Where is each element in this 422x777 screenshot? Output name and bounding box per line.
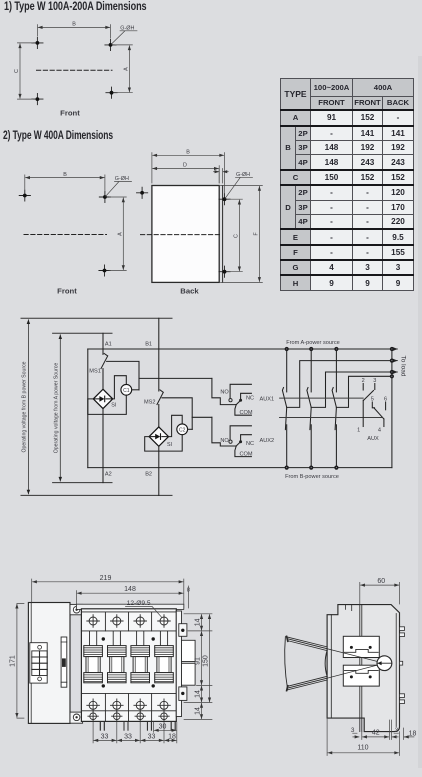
AUX1 blade bbox=[236, 401, 240, 405]
dimension arrow: operating voltage from B power source bbox=[27, 320, 29, 494]
wire A1 vertical bbox=[102, 333, 104, 354]
dimension 171 bbox=[16, 604, 18, 717]
right side band bbox=[176, 611, 181, 717]
dimension B bbox=[38, 26, 110, 28]
wire bridge1 bottom to A2 bbox=[102, 409, 104, 483]
operating voltage A reference line top bbox=[53, 332, 112, 334]
dimension 14 bottom bbox=[201, 703, 203, 718]
svg-text:B2: B2 bbox=[145, 471, 152, 477]
AUX1 feed wire bbox=[212, 378, 236, 404]
svg-text:171: 171 bbox=[10, 655, 17, 667]
junction dots on load bus bbox=[390, 359, 394, 363]
front view: mounting hole bottom-right bbox=[99, 265, 110, 276]
AUX1 COM branch bbox=[235, 405, 252, 416]
front view: mounting hole top-left bbox=[19, 190, 30, 201]
dimension 60 bbox=[360, 582, 400, 604]
AUX blade 3 to common bbox=[364, 391, 374, 401]
back view: dimension B extension lines bbox=[152, 153, 225, 194]
wire C1 right to junction bbox=[132, 389, 139, 391]
dimension 3 left bbox=[353, 736, 359, 738]
dimension C extension lines bbox=[17, 43, 33, 99]
main pole 3: load wire bbox=[336, 376, 392, 407]
wire junction to AUX1 feed bbox=[139, 377, 212, 379]
junction dots on B rail bbox=[285, 466, 289, 470]
svg-text:3: 3 bbox=[395, 727, 399, 734]
handle lower position bbox=[287, 676, 327, 690]
svg-text:8: 8 bbox=[187, 588, 190, 594]
projection lines to shaft bbox=[327, 649, 384, 679]
main body bbox=[81, 609, 176, 722]
section title 1 bbox=[4, 1, 147, 13]
pole 3 bbox=[131, 615, 150, 722]
svg-text:60: 60 bbox=[377, 578, 385, 585]
switch MS1 bbox=[101, 354, 108, 369]
right bottom tab bbox=[179, 687, 187, 701]
svg-text:COM: COM bbox=[240, 452, 253, 458]
svg-text:AUX1: AUX1 bbox=[260, 397, 275, 403]
right extension ticks bbox=[184, 614, 212, 720]
front view: dimension B extension lines bbox=[25, 175, 105, 191]
mounting feet stubs bbox=[100, 721, 104, 730]
main pole 3: lower wire bbox=[335, 425, 337, 468]
svg-text:B: B bbox=[186, 150, 190, 156]
svg-text:C1: C1 bbox=[123, 388, 130, 394]
dimension 14 top bbox=[201, 615, 203, 631]
linkage line upper bbox=[280, 397, 364, 399]
back view: dimension E (plate thickness) bbox=[219, 169, 222, 184]
pole 2 bbox=[108, 615, 127, 722]
svg-text:B: B bbox=[72, 22, 76, 28]
hole callout G-ØH leader bbox=[111, 31, 137, 45]
svg-text:A: A bbox=[124, 67, 130, 71]
svg-text:33: 33 bbox=[124, 733, 132, 740]
back view: dimension F extension lines bbox=[221, 186, 263, 283]
wire MS2 to bridge2 bbox=[158, 405, 160, 427]
rectifier bridge SI (1) bbox=[93, 389, 112, 408]
svg-text:33: 33 bbox=[148, 733, 156, 740]
operating voltage B reference line bottom bbox=[21, 494, 172, 496]
dimension 42 bbox=[363, 736, 389, 738]
main pole 2: upper contact wire bbox=[310, 349, 312, 392]
left plate slot bbox=[61, 637, 67, 687]
main pole 1: load wire bbox=[287, 361, 392, 408]
svg-text:F: F bbox=[254, 232, 260, 236]
svg-text:To load: To load bbox=[400, 356, 407, 377]
svg-text:14: 14 bbox=[195, 618, 202, 626]
svg-text:C: C bbox=[14, 69, 20, 73]
svg-text:AUX2: AUX2 bbox=[260, 438, 275, 444]
dimension A extension lines bbox=[115, 45, 132, 93]
AUX terminal 4 wire bbox=[383, 419, 385, 427]
handle upper position bbox=[287, 637, 327, 651]
load bus vertical bbox=[391, 349, 393, 468]
svg-text:18: 18 bbox=[168, 733, 176, 740]
svg-text:Front: Front bbox=[57, 287, 77, 296]
bottom terminal strip bbox=[81, 694, 176, 711]
AUX1 NO branch bbox=[230, 384, 251, 398]
coil C1 bbox=[121, 384, 132, 395]
svg-text:110: 110 bbox=[357, 745, 368, 752]
svg-text:Back: Back bbox=[180, 287, 199, 296]
coil C2 bbox=[177, 424, 188, 435]
left tie wire (control box left side) bbox=[87, 349, 89, 468]
front face inner line bbox=[330, 615, 332, 718]
main pole 1: upper blade bbox=[282, 388, 286, 430]
wire junction to AUX2 feed bbox=[192, 416, 212, 418]
left interlock plate bbox=[28, 603, 70, 724]
svg-text:33: 33 bbox=[101, 733, 109, 740]
dimension B extension lines bbox=[37, 25, 110, 38]
svg-text:B1: B1 bbox=[145, 342, 152, 348]
front view: mounting hole top-right bbox=[99, 191, 110, 202]
to-load arrow 3 bbox=[392, 371, 397, 373]
top joint ticks bbox=[346, 605, 352, 611]
top terminal strip bbox=[81, 612, 176, 631]
main pole 1: lower wire bbox=[286, 425, 288, 468]
svg-text:MS1: MS1 bbox=[89, 368, 101, 374]
svg-text:A1: A1 bbox=[105, 342, 112, 348]
bottom extension lines bbox=[362, 720, 404, 740]
svg-text:A2: A2 bbox=[105, 471, 112, 477]
section title 2 bbox=[3, 130, 113, 142]
AUX2 blade bbox=[236, 442, 240, 446]
wire MS1 fixed contact to junction bbox=[107, 361, 139, 389]
svg-text:AUX: AUX bbox=[367, 436, 379, 442]
back view: mounting hole right-upper bbox=[219, 194, 230, 205]
back view: body rectangle bbox=[152, 186, 219, 283]
svg-text:C: C bbox=[234, 234, 240, 238]
mounting hole top-left bbox=[32, 37, 43, 48]
to-load arrow 1 bbox=[392, 348, 397, 350]
back view: center dashed line bbox=[141, 234, 222, 236]
A-power rail bbox=[88, 348, 392, 350]
dimension 110 bbox=[327, 718, 399, 755]
AUX2 NC branch bbox=[241, 435, 252, 441]
mounting feet stubs bbox=[100, 721, 104, 730]
AUX common wire to terminal 1 bbox=[362, 400, 364, 426]
back view: dimension B bbox=[153, 154, 224, 156]
wire MS1 to bridge bbox=[102, 369, 104, 390]
front view: hole callout G-ØH bbox=[106, 182, 132, 197]
svg-text:From A-power source: From A-power source bbox=[286, 340, 339, 346]
rear bracket bbox=[182, 640, 196, 661]
back inner line bbox=[395, 614, 397, 727]
svg-text:18: 18 bbox=[409, 731, 417, 738]
wire bridge2 right vertex to coil C2 bbox=[168, 415, 182, 436]
svg-text:From B-power source: From B-power source bbox=[285, 474, 339, 480]
switch MS2 bbox=[157, 390, 163, 405]
svg-text:SI: SI bbox=[167, 442, 172, 448]
back view: dimension C bbox=[238, 200, 240, 271]
AUX2 NO branch bbox=[230, 426, 251, 440]
dimension 8 bbox=[188, 586, 190, 608]
svg-text:A: A bbox=[118, 232, 124, 236]
to-load arrow 2 bbox=[392, 360, 397, 362]
svg-text:G-ØH: G-ØH bbox=[236, 172, 250, 178]
svg-text:G-ØH: G-ØH bbox=[120, 25, 134, 31]
right page edge shading bbox=[418, 56, 422, 768]
svg-text:B: B bbox=[63, 172, 67, 178]
main pole 1: upper contact wire bbox=[286, 349, 288, 392]
dimension arrow: operating voltage from A power source bbox=[59, 335, 61, 481]
dimension 33 x3 and 18 bbox=[94, 739, 116, 741]
mounting panel line bbox=[360, 605, 362, 732]
svg-text:12-Ø9.5: 12-Ø9.5 bbox=[127, 600, 151, 607]
front view: center dashed line bbox=[24, 234, 107, 236]
bottom extension lines bbox=[93, 722, 177, 743]
back view: dimension D bbox=[153, 168, 219, 170]
rectifier bridge SI (2) bbox=[149, 427, 168, 446]
main pole 3: upper contact wire bbox=[335, 349, 337, 392]
operating voltage A reference line bottom bbox=[53, 482, 112, 484]
main pole 2: upper blade bbox=[307, 388, 311, 430]
svg-text:Operating voltage from B power: Operating voltage from B power Source bbox=[21, 361, 27, 452]
svg-text:Operating voltage from A power: Operating voltage from A power Source bbox=[53, 363, 59, 454]
back view: rear plate edge line bbox=[222, 186, 224, 283]
wire bridge2 bottom to B2 bbox=[158, 446, 160, 495]
front view: dimension A bbox=[122, 198, 124, 270]
mounting hole bottom-left bbox=[32, 94, 43, 105]
svg-text:148: 148 bbox=[124, 586, 136, 593]
svg-text:NC: NC bbox=[246, 396, 254, 402]
svg-text:150: 150 bbox=[203, 655, 210, 667]
svg-text:30: 30 bbox=[159, 723, 167, 730]
svg-text:D: D bbox=[183, 163, 187, 169]
svg-text:NO: NO bbox=[220, 438, 229, 444]
rear panel top edge bbox=[76, 604, 183, 609]
dimension 30 bbox=[154, 729, 176, 731]
back view: hole callout G-ØH bbox=[225, 177, 252, 198]
wire bridge1 right vertex to coil C1 bbox=[113, 376, 127, 399]
dimension 150 bbox=[209, 615, 211, 702]
body mounting holes bbox=[102, 637, 105, 640]
AUX1 NC branch bbox=[241, 393, 252, 399]
svg-text:4: 4 bbox=[378, 427, 381, 433]
poles of front view bbox=[84, 615, 174, 722]
bottom corner boss bbox=[70, 712, 83, 723]
handle bump bbox=[325, 651, 327, 677]
dimension C bbox=[19, 44, 21, 98]
svg-text:SI: SI bbox=[111, 403, 116, 409]
handle swing arc bbox=[285, 637, 288, 690]
dimension 219 bbox=[32, 579, 184, 608]
left plate terminal block bbox=[30, 643, 47, 683]
back view: dimension D extension line bbox=[218, 166, 220, 183]
svg-text:NO: NO bbox=[220, 389, 229, 395]
svg-text:219: 219 bbox=[100, 575, 112, 582]
top corner boss bbox=[70, 604, 83, 614]
svg-text:14: 14 bbox=[195, 707, 202, 715]
main pole 2: load wire bbox=[311, 372, 392, 407]
junction dots on A rail bbox=[285, 347, 289, 351]
svg-text:14: 14 bbox=[195, 690, 202, 698]
side view body outline bbox=[327, 605, 399, 732]
svg-text:G-ØH: G-ØH bbox=[115, 176, 129, 182]
main pole 3: upper blade bbox=[332, 388, 336, 430]
wire C2 right to junction bbox=[188, 428, 193, 430]
svg-text:91: 91 bbox=[195, 657, 202, 665]
operating voltage B reference line top bbox=[21, 317, 172, 319]
operating shaft bbox=[377, 656, 392, 671]
svg-text:Front: Front bbox=[60, 109, 80, 118]
dimension 3 right bbox=[392, 736, 398, 738]
main pole 2: lower wire bbox=[310, 425, 312, 468]
right DIN tabs bbox=[400, 627, 405, 631]
lower pocket bbox=[343, 665, 379, 686]
svg-text:MS2: MS2 bbox=[144, 399, 156, 405]
wire MS2 fixed contact right bbox=[162, 398, 192, 430]
AUX2 feed wire bbox=[212, 417, 236, 446]
dimension 91 bbox=[201, 632, 203, 685]
linkage line lower bbox=[280, 417, 382, 419]
back view: mounting hole left bbox=[137, 187, 148, 198]
svg-text:COM: COM bbox=[240, 410, 253, 416]
dimension A bbox=[128, 46, 130, 92]
svg-text:1: 1 bbox=[357, 427, 360, 433]
AUX blade 5 to 4 bbox=[375, 409, 384, 420]
svg-text:42: 42 bbox=[372, 730, 380, 737]
pole 1 bbox=[84, 615, 103, 722]
wire bridge2 left loop bbox=[145, 435, 183, 451]
upper pocket bbox=[343, 636, 379, 657]
pole 4 bbox=[155, 615, 174, 722]
wire B1 vertical bbox=[158, 318, 160, 391]
center dashed line bbox=[37, 69, 113, 71]
dimensions table bbox=[280, 78, 414, 291]
back view: mounting hole right-lower bbox=[219, 266, 230, 277]
svg-text:C2: C2 bbox=[179, 427, 186, 433]
B-power rail bbox=[88, 467, 392, 469]
dimension 14 mid bbox=[201, 686, 203, 702]
right top tab bbox=[179, 624, 187, 637]
back view: dimension F bbox=[258, 186, 260, 281]
back view: dimension C extension lines bbox=[229, 199, 242, 272]
dimension 148 bbox=[75, 591, 77, 609]
svg-text:NC: NC bbox=[246, 441, 254, 447]
front view: dimension A extension lines bbox=[109, 197, 126, 271]
front view: dimension B bbox=[26, 177, 105, 179]
dimension 18 bbox=[404, 736, 414, 738]
mounting hole top-right bbox=[105, 39, 116, 50]
AUX2 COM branch bbox=[235, 446, 252, 457]
svg-text:3: 3 bbox=[351, 727, 355, 734]
wire bridge1 left loop bbox=[88, 395, 127, 414]
mounting hole bottom-right bbox=[106, 87, 117, 98]
